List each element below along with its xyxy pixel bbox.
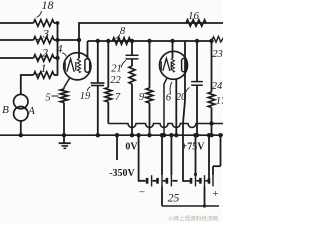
svg-text:25: 25 xyxy=(168,193,180,205)
svg-text:B: B xyxy=(2,104,9,116)
svg-text:7: 7 xyxy=(115,92,121,103)
svg-text:8: 8 xyxy=(120,26,126,37)
svg-text:17: 17 xyxy=(216,96,223,107)
svg-text:16: 16 xyxy=(188,10,200,22)
svg-text:21: 21 xyxy=(111,64,122,75)
svg-text:+75V: +75V xyxy=(182,142,206,153)
svg-text:19: 19 xyxy=(80,91,91,102)
svg-text:小桦上现资料经济网: 小桦上现资料经济网 xyxy=(168,215,218,223)
svg-text:-350V: -350V xyxy=(109,168,135,179)
svg-text:20: 20 xyxy=(176,92,187,103)
svg-text:24: 24 xyxy=(212,81,223,92)
svg-text:18: 18 xyxy=(42,0,54,12)
svg-text:3: 3 xyxy=(42,27,49,41)
svg-text:6: 6 xyxy=(166,93,172,104)
svg-text:4: 4 xyxy=(57,44,63,56)
svg-text:5: 5 xyxy=(45,93,50,104)
svg-text:1: 1 xyxy=(41,61,47,75)
svg-text:23: 23 xyxy=(212,49,223,60)
svg-text:2: 2 xyxy=(42,46,48,60)
svg-text:A: A xyxy=(27,105,35,117)
svg-text:22: 22 xyxy=(110,75,121,86)
svg-text:0V: 0V xyxy=(125,142,138,153)
svg-text:−: − xyxy=(139,187,145,199)
svg-text:+: + xyxy=(212,188,218,200)
svg-text:9: 9 xyxy=(139,92,145,103)
